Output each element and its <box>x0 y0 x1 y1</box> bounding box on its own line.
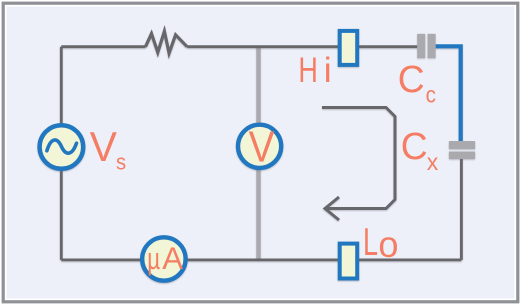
terminal Hi <box>340 31 358 65</box>
svg-text:C: C <box>401 125 428 167</box>
arrow (current path) <box>322 108 395 221</box>
svg-text:µ: µ <box>147 242 160 276</box>
wire: blue from Cc to Cx <box>436 46 461 142</box>
svg-text:H: H <box>298 49 317 90</box>
voltmeter V <box>238 121 281 171</box>
wire: top left segment <box>61 45 145 48</box>
wire: left vertical <box>60 47 63 260</box>
wire: top right segment to Cc <box>187 45 417 48</box>
svg-text:C: C <box>398 58 425 100</box>
svg-text:o: o <box>378 223 398 265</box>
label Lo <box>363 222 399 265</box>
svg-text:L: L <box>363 222 378 265</box>
wire: bottom horizontal <box>61 258 461 261</box>
wire: middle vertical voltmeter branch <box>256 47 260 260</box>
svg-text:V: V <box>249 121 275 171</box>
label Cc <box>398 58 436 108</box>
label Hi <box>298 49 331 90</box>
microammeter uA <box>142 237 185 280</box>
wire: right vertical below Cx <box>460 158 463 260</box>
source Vs <box>40 125 84 169</box>
svg-text:s: s <box>116 151 126 175</box>
capacitor Cc <box>417 34 435 58</box>
label Vs <box>90 123 126 175</box>
svg-text:c: c <box>426 81 436 107</box>
label Cx <box>401 125 439 175</box>
svg-text:A: A <box>162 241 183 276</box>
resistor <box>146 31 188 53</box>
capacitor Cx <box>449 141 475 159</box>
svg-text:x: x <box>427 149 439 175</box>
terminal Lo <box>340 244 358 279</box>
svg-text:i: i <box>324 50 332 90</box>
svg-text:V: V <box>90 123 118 170</box>
